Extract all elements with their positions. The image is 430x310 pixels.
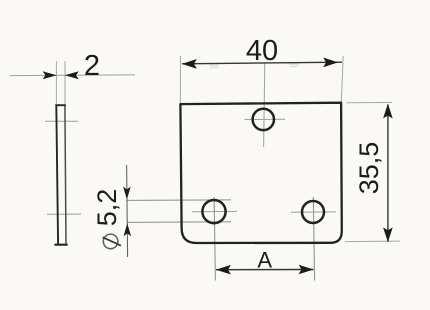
dim 35,5: extension line top (347, 101, 393, 103)
dim 2: left arrow (points right) (43, 71, 57, 79)
dim 40: smudge marks (209, 65, 219, 67)
side view bottom-holes centerline (47, 213, 81, 215)
dim 40: extension line left (179, 56, 181, 103)
bottom left hole centerline horizontal (192, 210, 237, 212)
dim 2: extension line left (55, 61, 57, 104)
bottom left hole (202, 200, 225, 223)
svg-text:A: A (257, 247, 272, 272)
top hole centerline horizontal (245, 118, 286, 120)
bottom left hole centerline vertical / A extension (214, 197, 215, 281)
dim 5,2: bottom leader line (127, 221, 231, 224)
svg-text:2: 2 (84, 50, 100, 82)
dim 2: right arrow (points left) (65, 71, 79, 79)
dim 35,5: bottom arrow (points down) (383, 228, 393, 243)
dim 5,2: vertical dimension line (127, 165, 128, 257)
dim 40: right arrow (points right) (323, 58, 338, 68)
dim 2: dimension line (10, 74, 135, 77)
svg-text:5,2: 5,2 (92, 189, 122, 227)
dim 5,2: upper arrow (points down) (123, 187, 131, 200)
bottom right hole (302, 201, 324, 223)
bottom right hole centerline horizontal (291, 211, 336, 213)
svg-text:35,5: 35,5 (354, 142, 384, 195)
dim 5,2: diameter symbol (103, 234, 121, 249)
dim 35,5: extension line bottom (345, 240, 400, 243)
svg-text:40: 40 (246, 35, 278, 67)
dim 40: extension line right (341, 56, 343, 102)
dim 35,5: top arrow (points up) (383, 104, 393, 119)
dim 35,5: dimension line (387, 105, 389, 242)
dim 2: extension line right (64, 61, 66, 104)
dim 40: left arrow (points left) (182, 59, 197, 69)
dim 40: dimension line (182, 62, 342, 64)
side view top-hole centerline (45, 120, 78, 122)
top hole centerline vertical (264, 63, 265, 147)
dim 5,2: lower arrow (points up) (124, 223, 132, 236)
dim A: right arrow (points right) (299, 265, 314, 275)
dim A: left arrow (points left) (216, 265, 231, 275)
front view plate outline (180, 103, 341, 243)
dim 5,2: top leader line (127, 199, 231, 202)
bottom right hole centerline vertical / A extension (313, 197, 314, 281)
dim A: dimension line (216, 269, 314, 271)
side view plate (edge-on) (56, 105, 67, 245)
top hole (253, 109, 274, 130)
